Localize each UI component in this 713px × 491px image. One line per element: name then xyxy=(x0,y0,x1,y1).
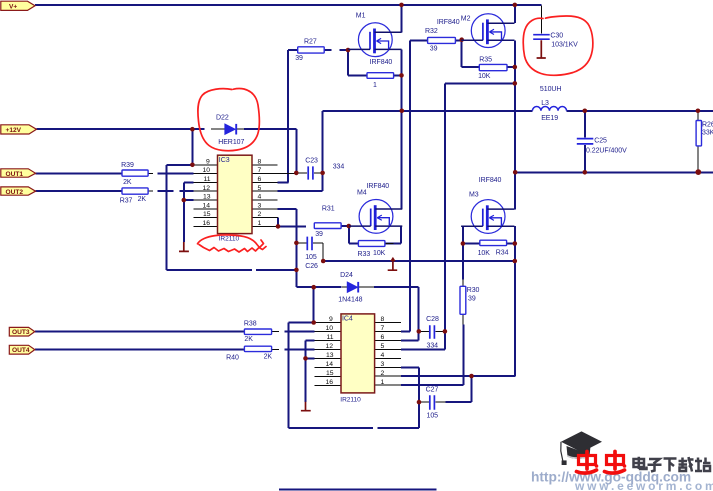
svg-text:10: 10 xyxy=(326,325,334,332)
svg-text:6: 6 xyxy=(258,176,262,183)
svg-text:R35: R35 xyxy=(479,56,492,63)
svg-text:C27: C27 xyxy=(426,386,439,393)
svg-text:OUT2: OUT2 xyxy=(6,189,24,196)
svg-text:7: 7 xyxy=(381,325,385,332)
svg-text:IRF840: IRF840 xyxy=(437,19,460,26)
svg-text:39: 39 xyxy=(468,296,476,303)
svg-text:10K: 10K xyxy=(373,250,386,257)
svg-text:IC3: IC3 xyxy=(219,157,230,164)
svg-text:R31: R31 xyxy=(322,205,335,212)
svg-text:510UH: 510UH xyxy=(540,86,562,93)
svg-text:3: 3 xyxy=(258,202,262,209)
svg-text:5: 5 xyxy=(258,185,262,192)
svg-text:D22: D22 xyxy=(216,115,229,122)
svg-text:2: 2 xyxy=(258,211,262,218)
svg-text:IR2110: IR2110 xyxy=(340,396,361,403)
svg-text:V+: V+ xyxy=(9,3,17,10)
svg-text:10K: 10K xyxy=(478,73,491,80)
svg-text:334: 334 xyxy=(427,343,439,350)
svg-text:D24: D24 xyxy=(340,272,353,279)
svg-text:OUT4: OUT4 xyxy=(12,347,30,354)
svg-text:12: 12 xyxy=(203,185,211,192)
svg-text:33K: 33K xyxy=(702,130,713,137)
svg-text:M1: M1 xyxy=(356,13,366,20)
svg-text:39: 39 xyxy=(315,231,323,238)
svg-text:334: 334 xyxy=(333,163,345,170)
svg-text:1: 1 xyxy=(258,220,262,227)
svg-text:14: 14 xyxy=(203,202,211,209)
svg-text:8: 8 xyxy=(381,316,385,323)
svg-text:www.eeworm.com: www.eeworm.com xyxy=(574,479,713,491)
svg-text:IRF840: IRF840 xyxy=(370,59,393,66)
svg-text:EE19: EE19 xyxy=(541,115,558,122)
svg-text:IC4: IC4 xyxy=(342,316,353,323)
svg-text:16: 16 xyxy=(203,220,211,227)
svg-text:IRF840: IRF840 xyxy=(367,183,390,190)
svg-text:2K: 2K xyxy=(244,336,253,343)
svg-text:M2: M2 xyxy=(461,16,471,23)
svg-text:39: 39 xyxy=(295,55,303,62)
svg-text:R26: R26 xyxy=(702,121,713,128)
svg-text:R34: R34 xyxy=(496,249,509,256)
svg-text:R39: R39 xyxy=(121,162,134,169)
svg-text:9: 9 xyxy=(206,158,210,165)
svg-text:14: 14 xyxy=(326,361,334,368)
svg-text:4: 4 xyxy=(381,352,385,359)
svg-text:M4: M4 xyxy=(357,189,367,196)
svg-text:C25: C25 xyxy=(594,137,607,144)
svg-text:1: 1 xyxy=(381,379,385,386)
svg-text:9: 9 xyxy=(329,316,333,323)
svg-text:M3: M3 xyxy=(469,192,479,199)
svg-text:15: 15 xyxy=(203,211,211,218)
svg-text:OUT1: OUT1 xyxy=(6,171,24,178)
svg-text:6: 6 xyxy=(381,334,385,341)
svg-text:105: 105 xyxy=(427,413,439,420)
svg-text:C26: C26 xyxy=(305,263,318,270)
svg-text:2K: 2K xyxy=(138,196,147,203)
svg-text:C23: C23 xyxy=(305,157,318,164)
svg-text:13: 13 xyxy=(203,194,211,201)
svg-text:R32: R32 xyxy=(425,28,438,35)
svg-text:OUT3: OUT3 xyxy=(12,329,30,336)
svg-text:L3: L3 xyxy=(541,100,549,107)
svg-text:103/1KV: 103/1KV xyxy=(551,42,578,49)
svg-text:15: 15 xyxy=(326,370,334,377)
svg-text:4: 4 xyxy=(258,194,262,201)
svg-text:5: 5 xyxy=(381,343,385,350)
svg-text:R38: R38 xyxy=(244,320,257,327)
svg-text:R30: R30 xyxy=(467,287,480,294)
svg-text:HER107: HER107 xyxy=(218,139,244,146)
svg-text:IR2110: IR2110 xyxy=(219,235,240,242)
svg-text:12: 12 xyxy=(326,343,334,350)
svg-text:16: 16 xyxy=(326,379,334,386)
svg-text:2K: 2K xyxy=(264,353,273,360)
svg-text:C28: C28 xyxy=(426,316,439,323)
svg-text:R40: R40 xyxy=(226,355,239,362)
svg-text:11: 11 xyxy=(327,334,334,341)
svg-text:13: 13 xyxy=(326,352,334,359)
svg-text:+12V: +12V xyxy=(6,127,22,134)
svg-text:C30: C30 xyxy=(550,32,563,39)
svg-text:R37: R37 xyxy=(120,197,133,204)
svg-text:IRF840: IRF840 xyxy=(479,177,502,184)
svg-text:1: 1 xyxy=(373,82,377,89)
svg-text:2K: 2K xyxy=(123,179,132,186)
svg-text:3: 3 xyxy=(381,361,385,368)
svg-text:10: 10 xyxy=(203,167,211,174)
svg-text:7: 7 xyxy=(258,167,262,174)
svg-text:2: 2 xyxy=(381,370,385,377)
svg-text:R33: R33 xyxy=(358,251,371,258)
svg-text:105: 105 xyxy=(305,254,317,261)
svg-text:8: 8 xyxy=(258,158,262,165)
svg-text:10K: 10K xyxy=(478,250,491,257)
svg-text:R27: R27 xyxy=(304,39,317,46)
svg-text:11: 11 xyxy=(204,176,211,183)
svg-text:1N4148: 1N4148 xyxy=(338,297,362,304)
svg-text:39: 39 xyxy=(430,45,438,52)
svg-text:0.22UF/400V: 0.22UF/400V xyxy=(586,147,627,154)
